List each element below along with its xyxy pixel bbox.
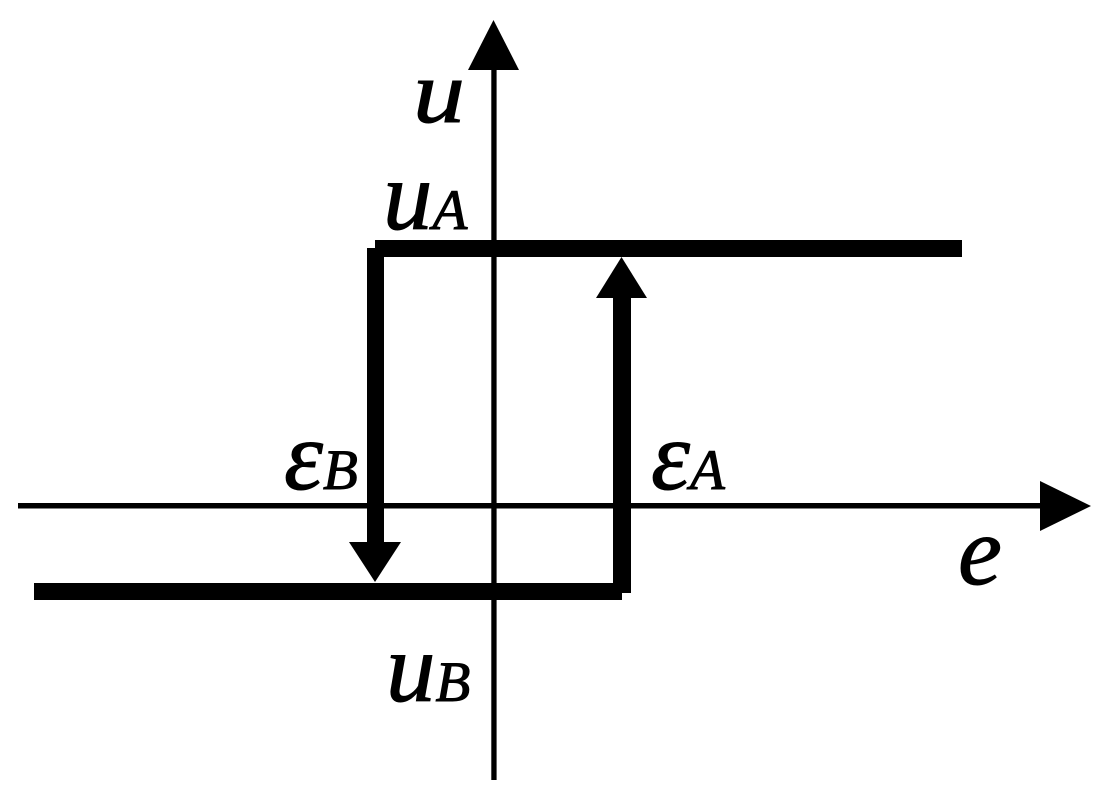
svg-text:εA: εA <box>651 402 726 511</box>
svg-text:uB: uB <box>386 614 470 723</box>
axis u arrowhead <box>468 20 519 70</box>
svg-text:u: u <box>413 44 465 142</box>
hysteresis upper branch (u=uA horizontal segment) <box>375 240 962 257</box>
axis e (horizontal axis line) <box>18 503 1045 509</box>
hysteresis rising segment at e=eA (vertical stroke) <box>613 297 631 593</box>
svg-text:εB: εB <box>284 402 358 511</box>
svg-text:e: e <box>958 497 1002 606</box>
down arrowhead at e=eB <box>349 542 401 582</box>
hysteresis falling segment at e=eB (vertical stroke) <box>367 248 384 543</box>
svg-text:uA: uA <box>383 142 469 251</box>
up arrowhead at e=eA <box>596 257 647 298</box>
axis e arrowhead <box>1040 481 1091 531</box>
hysteresis lower branch (u=uB horizontal segment) <box>34 583 622 600</box>
axis u (vertical axis line) <box>491 62 496 780</box>
